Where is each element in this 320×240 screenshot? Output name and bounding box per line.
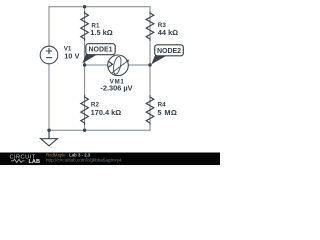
label R3 name (158, 22, 178, 37)
wire voltmeter row (85, 64, 150, 66)
svg-text:http://circuitlab.com/c/gkbba5: http://circuitlab.com/c/gkbba5agmxy4 (46, 157, 122, 162)
voltmeter VM1 (108, 55, 130, 76)
resistor R1 (81, 11, 89, 40)
voltage source V1 (40, 46, 58, 64)
wire middle branch vertical (R1/R2 branch) (84, 7, 86, 131)
svg-text:NODE2: NODE2 (157, 48, 181, 55)
node NODE1 flag (82, 44, 115, 64)
svg-text:1.5 kΩ: 1.5 kΩ (90, 28, 112, 37)
node NODE2 flag (151, 45, 183, 65)
resistor R3 (146, 11, 154, 40)
wire top rail (49, 6, 150, 8)
label VM1 name (100, 79, 132, 93)
svg-text:5 MΩ: 5 MΩ (157, 108, 177, 117)
svg-text:44 kΩ: 44 kΩ (158, 28, 178, 37)
junction dot top (R1 branch) (83, 5, 86, 8)
label R4 name (157, 102, 177, 117)
svg-text:10 V: 10 V (64, 51, 79, 60)
svg-text:LAB: LAB (29, 159, 41, 165)
resistor R2 (81, 95, 89, 124)
label V1 name (64, 46, 80, 61)
svg-text:-2.306 µV: -2.306 µV (100, 83, 132, 92)
junction node B (NODE2 tee) (148, 63, 151, 66)
ground (41, 130, 58, 146)
junction dot bottom (R2 branch) (83, 129, 86, 132)
label R2 name (91, 102, 122, 118)
logo CircuitLab (10, 155, 41, 166)
label R1 name (90, 23, 112, 38)
svg-text:NODE1: NODE1 (88, 47, 112, 54)
resistor R4 (146, 95, 154, 124)
watermark bar (0, 153, 220, 166)
svg-text:170.4 kΩ: 170.4 kΩ (91, 108, 122, 117)
junction dot bottom-left (ground tee) (47, 129, 50, 132)
wire bottom rail (49, 129, 150, 131)
junction node A (NODE1 tee) (83, 63, 86, 66)
wire right branch vertical (R3/R4 branch) (149, 7, 151, 131)
wire left branch vertical (V1 branch) (48, 7, 50, 131)
